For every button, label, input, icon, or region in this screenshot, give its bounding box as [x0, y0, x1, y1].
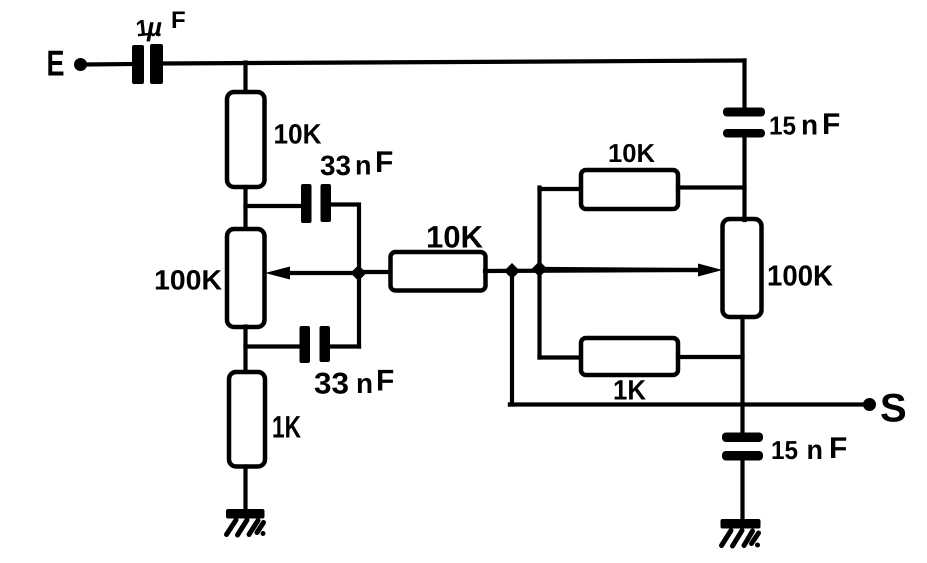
capacitor C3 15nF (upper) — [723, 108, 765, 138]
value label 1K right — [615, 380, 646, 399]
wire — [740, 317, 744, 433]
resistor R5 1K (left, lower) — [229, 372, 265, 467]
potentiometer P1 100K (left) — [227, 229, 265, 327]
capacitor C5 33nF (lower) — [300, 326, 331, 363]
wire — [331, 205, 359, 347]
value label 100K left — [156, 270, 222, 290]
value label 100K right — [769, 265, 833, 286]
wiper arrow P1 — [265, 267, 357, 280]
value label 15nF upper — [771, 113, 840, 134]
resistor R1 10K (left, upper) — [227, 92, 265, 187]
resistor R2 10K (middle) — [391, 252, 486, 291]
value label 33nF lower — [315, 370, 394, 394]
wire output line — [510, 402, 864, 406]
capacitor C4 15nF (lower) — [722, 433, 763, 461]
junction node A — [351, 265, 367, 281]
wire — [243, 187, 247, 230]
wire — [742, 137, 746, 220]
ground (right) — [721, 519, 761, 548]
wire — [742, 61, 746, 109]
wire — [678, 185, 745, 189]
wire top rail — [162, 61, 745, 64]
wire — [330, 344, 359, 348]
wire — [243, 327, 247, 374]
resistor R3 10K (right, upper) — [581, 170, 678, 209]
wire — [678, 355, 743, 359]
resistor R4 1K (right, lower) — [581, 338, 678, 375]
wire — [510, 271, 512, 405]
wire — [243, 467, 247, 510]
terminal dot E — [74, 58, 87, 71]
node E (input terminal label) — [48, 51, 63, 76]
capacitor C1 1uF — [132, 44, 163, 84]
wire — [540, 187, 583, 191]
wire — [85, 62, 133, 67]
wire — [362, 270, 392, 274]
value label 10K middle — [428, 226, 483, 248]
wire — [740, 460, 744, 519]
wire — [485, 270, 700, 271]
terminal dot S — [863, 398, 876, 411]
value label 10K right — [610, 144, 655, 162]
wiper arrow P2 — [545, 264, 723, 277]
potentiometer P2 100K (right) — [723, 219, 762, 317]
junction node B — [504, 263, 520, 279]
junction node C — [532, 261, 548, 277]
wire — [243, 63, 247, 94]
wire — [246, 204, 302, 208]
capacitor C2 33nF (upper) — [301, 184, 331, 223]
value label 1K left — [273, 416, 300, 437]
wire — [537, 188, 541, 358]
value label 33nF upper — [321, 151, 393, 175]
value label 1uF — [136, 11, 184, 41]
wire — [540, 355, 583, 359]
value label 10K — [275, 124, 321, 144]
node S (output terminal label) — [881, 394, 905, 422]
value label 15nF lower — [773, 437, 847, 459]
wire — [246, 344, 301, 348]
ground (left) — [226, 509, 266, 536]
